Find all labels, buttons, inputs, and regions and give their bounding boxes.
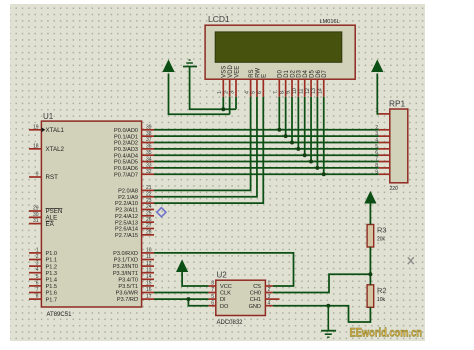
wire P3.7 to U2 DI — [154, 298, 208, 300]
label R3 — [377, 226, 387, 235]
svg-text:R2: R2 — [377, 286, 387, 295]
svg-text:P0.4/AD4: P0.4/AD4 — [114, 153, 138, 159]
svg-text:9: 9 — [286, 91, 292, 94]
svg-text:P1.1: P1.1 — [46, 258, 58, 264]
wire power to LCD VDD — [169, 74, 230, 115]
svg-text:RP1: RP1 — [389, 99, 406, 109]
wire P2.1 to LCD RW — [154, 97, 257, 197]
svg-text:VDD: VDD — [228, 64, 234, 77]
svg-text:D7: D7 — [322, 69, 328, 77]
svg-text:P2.4/A12: P2.4/A12 — [115, 214, 138, 220]
U1 pin 25 P2.4/A12 — [115, 211, 154, 220]
resistor R3 body — [367, 225, 374, 248]
svg-text:220: 220 — [390, 186, 399, 192]
svg-text:5: 5 — [211, 294, 214, 300]
svg-text:U1: U1 — [43, 112, 54, 121]
RP1 pin 1 — [375, 108, 390, 114]
LCD LCD1 body — [205, 25, 355, 79]
RP1 pin 4 — [375, 138, 390, 144]
svg-text:P1.4: P1.4 — [46, 278, 58, 284]
svg-text:26: 26 — [146, 217, 152, 223]
svg-text:E: E — [262, 74, 268, 78]
svg-text:P2.2/A10: P2.2/A10 — [115, 201, 138, 207]
svg-text:6: 6 — [36, 280, 39, 286]
U1 pin 39 P0.0/AD0 — [114, 125, 154, 134]
svg-text:14: 14 — [146, 274, 152, 280]
U1 pin 2 P1.1 — [29, 254, 57, 264]
svg-text:15: 15 — [146, 281, 152, 287]
resistor pack RP1 body — [390, 109, 408, 183]
no-connect X mark — [408, 257, 414, 264]
U1 pin 22 P2.1/A9 — [118, 191, 154, 200]
U1 pin 29 PSEN — [29, 206, 62, 216]
U1 pin 4 P1.3 — [29, 267, 57, 277]
U1 pin 8 P1.7 — [29, 294, 57, 304]
wire branch DI to DO — [188, 299, 208, 306]
svg-text:RST: RST — [46, 174, 59, 181]
U1 pin 30 ALE — [29, 212, 57, 222]
svg-text:D0: D0 — [278, 69, 284, 77]
svg-text:U2: U2 — [217, 271, 228, 280]
LCD pin 8 D1 — [279, 69, 290, 96]
power symbol at LCD VDD — [163, 61, 174, 72]
svg-text:8: 8 — [36, 294, 39, 300]
U1 pin 5 P1.4 — [29, 274, 57, 284]
U1 pin 3 P1.2 — [29, 261, 57, 271]
svg-text:27: 27 — [146, 223, 152, 229]
svg-text:AT89C51: AT89C51 — [47, 312, 73, 318]
svg-text:14: 14 — [317, 88, 323, 94]
svg-text:9: 9 — [36, 172, 39, 178]
wire R3 bottom to R2 top — [369, 247, 371, 285]
cursor diamond marker — [157, 208, 166, 217]
svg-text:3: 3 — [230, 91, 236, 94]
svg-text:12: 12 — [146, 261, 152, 267]
LCD pin 9 D2 — [286, 69, 297, 96]
U1 pin 26 P2.5/A13 — [115, 217, 154, 226]
svg-text:P1.2: P1.2 — [46, 264, 58, 270]
label U1 — [43, 112, 54, 121]
svg-text:2: 2 — [223, 91, 229, 94]
LCD pin 7 D0 — [273, 69, 284, 96]
LCD data verticals D0-D7 — [279, 97, 323, 174]
U1 pin 35 P0.4/AD4 — [114, 150, 154, 159]
svg-text:2: 2 — [268, 287, 271, 293]
watermark EEworld.com.cn — [350, 328, 423, 340]
svg-text:5: 5 — [251, 91, 257, 94]
svg-text:R3: R3 — [377, 226, 387, 235]
power symbol at U2 VCC — [177, 261, 188, 272]
svg-text:P3.6/WR: P3.6/WR — [116, 291, 138, 297]
U2 pin 4 GND — [249, 300, 273, 309]
LCD pin 6 E — [257, 74, 268, 97]
LCD pin 12 D5 — [305, 69, 316, 96]
U1 pin 27 P2.6/A14 — [115, 223, 154, 232]
U2 pin 8 VCC — [208, 281, 231, 290]
svg-text:18: 18 — [33, 143, 39, 149]
svg-text:P0.6/AD6: P0.6/AD6 — [114, 166, 138, 172]
svg-text:37: 37 — [146, 137, 152, 143]
svg-text:P1.5: P1.5 — [46, 284, 58, 290]
svg-text:19: 19 — [33, 124, 39, 130]
svg-text:D5: D5 — [309, 69, 315, 77]
svg-text:VSS: VSS — [222, 66, 228, 78]
svg-text:8: 8 — [279, 91, 285, 94]
svg-text:P2.5/A13: P2.5/A13 — [115, 220, 138, 226]
svg-text:13: 13 — [146, 267, 152, 273]
LCD pin 14 D7 — [317, 69, 328, 96]
label R2 — [377, 286, 387, 295]
svg-text:P3.1/TXD: P3.1/TXD — [114, 258, 138, 264]
svg-text:5: 5 — [36, 274, 39, 280]
svg-text:CH0: CH0 — [250, 291, 261, 297]
svg-text:12: 12 — [305, 88, 311, 94]
svg-text:P2.7/A15: P2.7/A15 — [115, 233, 138, 239]
svg-text:1: 1 — [217, 91, 223, 94]
junction R3/R2 divider — [368, 272, 372, 276]
bus wires P0.0-P0.7 to RP1 pins 2-9 — [154, 130, 379, 174]
svg-text:D1: D1 — [284, 69, 290, 77]
LCD pin 13 D6 — [311, 69, 322, 96]
svg-text:DO: DO — [220, 304, 229, 310]
ground symbol at LCD (VSS/VEE) — [183, 60, 197, 67]
svg-text:29: 29 — [33, 206, 39, 212]
value 220 — [390, 186, 399, 192]
svg-text:25: 25 — [146, 211, 152, 217]
U1 pin 6 P1.5 — [29, 280, 57, 290]
svg-text:4: 4 — [268, 300, 271, 306]
U1 pin 17 P3.7/RD — [117, 294, 154, 303]
svg-text:P0.5/AD5: P0.5/AD5 — [114, 160, 138, 166]
U1 pin 16 P3.6/WR — [116, 287, 154, 296]
IC U1 AT89C51 body — [41, 121, 141, 307]
U1 pin 37 P0.2/AD2 — [114, 137, 154, 146]
svg-text:6: 6 — [211, 300, 214, 306]
LCD pin 10 D3 — [292, 69, 303, 96]
svg-text:GND: GND — [249, 304, 261, 310]
svg-text:VCC: VCC — [220, 284, 232, 290]
U1 pin 38 P0.1/AD1 — [114, 131, 154, 140]
bus junction dots — [277, 128, 325, 176]
U1 pin 14 P3.4/T0 — [118, 274, 154, 283]
RP1 pin 7 — [375, 157, 390, 163]
svg-text:CH1: CH1 — [250, 297, 261, 303]
U1 pin 24 P2.3/A11 — [115, 204, 154, 213]
svg-text:30: 30 — [33, 212, 39, 218]
U2 pin 1 CS — [253, 281, 273, 290]
junction VSS-ground — [221, 107, 225, 111]
LCD pin 11 D4 — [298, 69, 309, 96]
svg-text:38: 38 — [146, 131, 152, 137]
U1 pin 13 P3.3/INT1 — [113, 267, 154, 276]
svg-text:7: 7 — [273, 91, 279, 94]
svg-text:CS: CS — [253, 284, 261, 290]
U1 pin 10 P3.0/RXD — [113, 248, 154, 257]
svg-text:D2: D2 — [290, 69, 296, 77]
wire divider junction to U2 CH0 — [273, 274, 371, 292]
U2 pin 7 CLK — [208, 287, 231, 296]
U1 pin 31 EA — [29, 218, 55, 228]
svg-text:13: 13 — [311, 88, 317, 94]
wire P3.6 to U2 CLK — [154, 292, 208, 294]
value AT89C51 — [47, 312, 73, 318]
U1 pin 32 P0.7/AD7 — [114, 169, 154, 178]
value 10k — [377, 297, 386, 303]
svg-text:7: 7 — [211, 287, 214, 293]
RP1 pin 2 — [375, 125, 390, 131]
RP1 pin 8 — [375, 163, 390, 169]
ground symbol at U2/R2 — [321, 306, 336, 338]
svg-text:4: 4 — [36, 267, 39, 273]
wire U2 GND to R2 bottom — [273, 306, 371, 322]
svg-text:RS: RS — [249, 69, 255, 77]
label RP1 — [389, 99, 406, 109]
resistor R2 body — [367, 285, 374, 308]
svg-text:ADC0832: ADC0832 — [217, 320, 244, 326]
wire P2.2 to LCD E — [154, 97, 263, 203]
LCD pin 3 VEE — [230, 66, 241, 97]
svg-text:D6: D6 — [316, 69, 322, 77]
value LM016L — [320, 19, 340, 25]
svg-text:36: 36 — [146, 144, 152, 150]
svg-text:24: 24 — [146, 204, 152, 210]
svg-text:2: 2 — [36, 254, 39, 260]
svg-text:39: 39 — [146, 125, 152, 131]
svg-text:P1.7: P1.7 — [46, 297, 58, 303]
junction DI/DO branch — [186, 297, 190, 301]
U1 pin 11 P3.1/TXD — [114, 254, 154, 263]
svg-text:11: 11 — [146, 254, 151, 260]
svg-text:3: 3 — [268, 294, 271, 300]
power symbol above R3 — [365, 192, 376, 203]
wire power to R3 top — [369, 203, 371, 225]
svg-text:P0.0/AD0: P0.0/AD0 — [114, 128, 138, 134]
RP1 pin 6 — [375, 150, 390, 156]
svg-text:10k: 10k — [377, 297, 386, 303]
svg-text:P3.5/T1: P3.5/T1 — [118, 284, 138, 290]
svg-text:4: 4 — [244, 91, 250, 94]
U2 pin 6 DO — [208, 300, 229, 309]
svg-text:EEworld.com.cn: EEworld.com.cn — [350, 328, 423, 340]
svg-text:16: 16 — [146, 287, 152, 293]
svg-text:P1.6: P1.6 — [46, 291, 58, 297]
U1 pin 18 XTAL2 — [29, 143, 65, 153]
svg-text:P3.3/INT1: P3.3/INT1 — [113, 271, 138, 277]
svg-text:31: 31 — [33, 218, 39, 224]
RP1 pin 3 — [375, 131, 390, 137]
LCD pin 1 VSS — [217, 66, 228, 97]
U2 pin 3 CH1 — [250, 294, 280, 303]
svg-text:P3.2/INT0: P3.2/INT0 — [113, 264, 138, 270]
svg-text:P2.0/A8: P2.0/A8 — [118, 189, 138, 195]
U1 pin 21 P2.0/A8 — [118, 185, 154, 194]
svg-text:21: 21 — [146, 185, 152, 191]
svg-text:11: 11 — [298, 88, 304, 94]
svg-text:6: 6 — [257, 91, 263, 94]
svg-text:XTAL1: XTAL1 — [46, 127, 65, 134]
svg-text:28: 28 — [146, 230, 152, 236]
ADC U2 ADC0832 body — [216, 280, 266, 315]
value ADC0832 — [217, 320, 244, 326]
svg-text:LM016L: LM016L — [320, 19, 340, 25]
svg-text:P0.1/AD1: P0.1/AD1 — [114, 134, 138, 140]
svg-text:7: 7 — [36, 287, 39, 293]
svg-text:P0.2/AD2: P0.2/AD2 — [114, 141, 138, 147]
U1 pin 28 P2.7/A15 — [115, 230, 154, 239]
svg-text:23: 23 — [146, 198, 152, 204]
svg-text:3: 3 — [36, 261, 39, 267]
svg-text:CLK: CLK — [220, 291, 231, 297]
svg-text:35: 35 — [146, 150, 152, 156]
svg-text:P2.6/A14: P2.6/A14 — [115, 227, 138, 233]
U2 pin 5 DI — [208, 294, 226, 303]
U1 pin 36 P0.3/AD3 — [114, 144, 154, 153]
junction GND-ground — [326, 304, 330, 308]
svg-text:XTAL2: XTAL2 — [46, 146, 65, 153]
svg-text:P0.7/AD7: P0.7/AD7 — [114, 172, 138, 178]
svg-text:P2.1/A9: P2.1/A9 — [118, 195, 138, 201]
svg-text:EA: EA — [46, 221, 55, 228]
svg-text:P2.3/A11: P2.3/A11 — [115, 208, 138, 214]
U1 pin 34 P0.5/AD5 — [114, 156, 154, 165]
wire power to RP1 pin 1 — [377, 74, 378, 114]
svg-text:VEE: VEE — [234, 66, 240, 78]
value 20k — [377, 237, 386, 243]
svg-text:17: 17 — [146, 294, 152, 300]
RP1 pin 9 — [375, 169, 390, 175]
svg-text:P1.3: P1.3 — [46, 271, 58, 277]
svg-text:10: 10 — [292, 88, 298, 94]
power symbol at RP1 pin1 — [372, 61, 383, 72]
U1 pin 15 P3.5/T1 — [118, 281, 154, 290]
svg-text:32: 32 — [146, 169, 152, 175]
svg-text:P3.0/RXD: P3.0/RXD — [113, 251, 138, 257]
wire P2.0 to LCD RS — [154, 97, 251, 191]
label LCD1 — [208, 14, 230, 24]
U1 pin 23 P2.2/A10 — [115, 198, 154, 207]
U1 pin 9 RST — [29, 172, 58, 182]
U1 pin 33 P0.6/AD6 — [114, 163, 154, 172]
svg-text:LCD1: LCD1 — [208, 14, 230, 24]
svg-text:22: 22 — [146, 191, 152, 197]
svg-text:20k: 20k — [377, 237, 386, 243]
U2 pin 2 CH0 — [250, 287, 273, 296]
svg-text:D3: D3 — [297, 69, 303, 77]
U1 pin 19 XTAL1 — [29, 124, 65, 134]
svg-text:DI: DI — [220, 297, 226, 303]
svg-text:P0.3/AD3: P0.3/AD3 — [114, 147, 138, 153]
LCD pin 2 VDD — [223, 64, 234, 96]
svg-text:10: 10 — [146, 248, 152, 254]
wire power to U2 VCC — [182, 272, 208, 286]
U1 pin 7 P1.6 — [29, 287, 57, 297]
svg-text:P1.0: P1.0 — [46, 251, 58, 257]
wire LCD VSS/VEE to ground — [190, 67, 236, 110]
svg-text:1: 1 — [36, 247, 39, 253]
LCD pin 5 RW — [251, 68, 262, 97]
svg-text:33: 33 — [146, 163, 152, 169]
svg-text:34: 34 — [146, 156, 152, 162]
svg-text:1: 1 — [268, 281, 271, 287]
LCD pin 4 RS — [244, 69, 255, 96]
LCD screen — [215, 32, 342, 62]
RP1 pin 5 — [375, 144, 390, 150]
U1 pin 12 P3.2/INT0 — [113, 261, 154, 270]
label U2 — [217, 271, 228, 280]
U1 pin 1 P1.0 — [29, 247, 57, 257]
svg-text:P3.7/RD: P3.7/RD — [117, 297, 138, 303]
svg-text:8: 8 — [211, 281, 214, 287]
svg-text:RW: RW — [255, 68, 261, 78]
svg-text:P3.4/T0: P3.4/T0 — [118, 277, 138, 283]
svg-text:D4: D4 — [303, 69, 309, 77]
wire P3.0 to U2 CS — [154, 253, 294, 286]
